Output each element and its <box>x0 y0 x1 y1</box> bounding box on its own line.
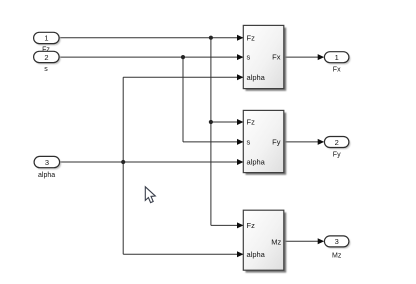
wire alpha branch to subsystem Mz <box>123 253 243 255</box>
wire Fz branch to subsystem Fy <box>211 121 243 123</box>
subsystem U3 (Mz) body <box>243 210 283 270</box>
svg-text:alpha: alpha <box>38 172 55 179</box>
wire alpha branch to subsystem Fx <box>123 76 243 78</box>
arrowhead into outport3 <box>318 238 325 244</box>
svg-text:2: 2 <box>44 53 48 62</box>
wire Mz output <box>285 240 319 242</box>
arrowhead into subsystem1 alpha <box>237 74 244 80</box>
svg-text:Mz: Mz <box>271 237 281 246</box>
svg-text:1: 1 <box>44 34 48 43</box>
outport 3 shadow <box>326 237 351 248</box>
svg-text:Fz: Fz <box>247 221 256 230</box>
wire s: inport2 to subsystem Fx <box>59 56 243 58</box>
subsystem U2 (Fy) shadow <box>246 113 287 175</box>
arrowhead into subsystem3 alpha <box>237 251 244 257</box>
svg-text:alpha: alpha <box>247 73 266 82</box>
svg-text:alpha: alpha <box>247 158 266 167</box>
wire alpha vertical branch <box>122 77 124 254</box>
subsystem U2 (Fy) body <box>243 110 283 172</box>
svg-text:Fy: Fy <box>333 151 341 158</box>
svg-text:Fz: Fz <box>247 33 256 42</box>
svg-text:Fz: Fz <box>247 118 256 127</box>
inport 2 shadow <box>35 53 61 64</box>
arrowhead into outport1 <box>318 54 325 60</box>
junction dot s <box>181 55 185 59</box>
arrowhead into subsystem1 Fz <box>237 35 244 41</box>
wire Fz: inport1 to subsystem Fx <box>59 37 243 39</box>
junction dot Fz top <box>209 36 213 40</box>
junction dot Fz middle <box>209 120 213 124</box>
arrowhead into subsystem3 Fz <box>237 222 244 228</box>
arrowhead into subsystem1 s <box>237 54 244 60</box>
junction dot alpha <box>121 160 125 164</box>
outport 1 <box>324 52 349 63</box>
svg-text:Fy: Fy <box>272 138 281 147</box>
svg-text:alpha: alpha <box>247 250 266 259</box>
inport 3 <box>34 156 60 167</box>
wire s vertical branch <box>182 57 184 142</box>
wire Fz branch to subsystem Mz <box>211 224 243 226</box>
outport 3 <box>324 236 349 247</box>
subsystem U1 (Fx) body <box>243 25 283 88</box>
svg-text:3: 3 <box>45 158 49 167</box>
inport 2 <box>34 51 60 62</box>
inport 1 shadow <box>35 34 61 45</box>
subsystem U1 (Fx) shadow <box>246 28 287 91</box>
svg-text:Fx: Fx <box>333 67 341 74</box>
subsystem U3 (Mz) shadow <box>246 212 287 272</box>
arrowhead into subsystem2 Fz <box>237 119 244 125</box>
arrowhead into subsystem2 alpha <box>237 159 244 165</box>
outport 1 shadow <box>326 53 351 64</box>
svg-text:Mz: Mz <box>332 253 342 260</box>
arrowhead into subsystem2 s <box>237 139 244 145</box>
svg-text:1: 1 <box>335 53 339 62</box>
wire Fz vertical branch <box>210 38 212 226</box>
svg-text:s: s <box>247 53 251 62</box>
wire s branch to subsystem Fy <box>183 141 243 143</box>
svg-text:s: s <box>247 138 251 147</box>
outport 2 shadow <box>326 138 351 149</box>
svg-text:2: 2 <box>335 138 339 147</box>
wire Fy output <box>285 141 319 143</box>
inport 3 shadow <box>36 158 62 169</box>
wire Fx output <box>285 56 319 58</box>
svg-text:Fx: Fx <box>272 53 281 62</box>
svg-text:3: 3 <box>335 237 339 246</box>
wire alpha: inport3 to subsystem Fy <box>60 161 243 163</box>
mouse cursor <box>145 187 155 203</box>
svg-text:s: s <box>44 66 48 73</box>
outport 2 <box>324 137 349 148</box>
inport 1 <box>34 32 60 43</box>
arrowhead into outport2 <box>318 139 325 145</box>
